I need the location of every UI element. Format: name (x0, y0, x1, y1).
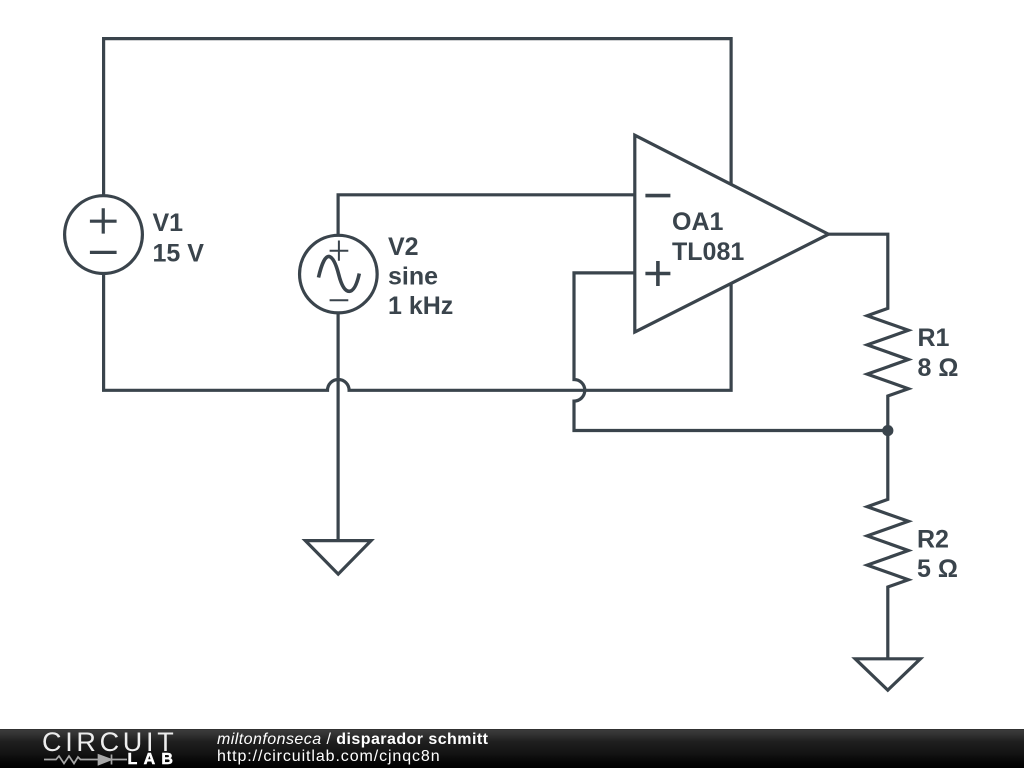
svg-text:5 Ω: 5 Ω (917, 555, 958, 583)
svg-text:sine: sine (388, 262, 438, 290)
svg-text:OA1: OA1 (672, 208, 724, 236)
svg-text:R2: R2 (917, 526, 949, 554)
svg-text:V1: V1 (153, 209, 184, 237)
svg-text:8 Ω: 8 Ω (918, 354, 959, 382)
svg-text:V2: V2 (388, 233, 419, 261)
svg-text:15 V: 15 V (153, 240, 205, 268)
svg-text:R1: R1 (918, 324, 950, 352)
svg-text:TL081: TL081 (672, 238, 744, 266)
svg-text:1 kHz: 1 kHz (388, 292, 453, 320)
